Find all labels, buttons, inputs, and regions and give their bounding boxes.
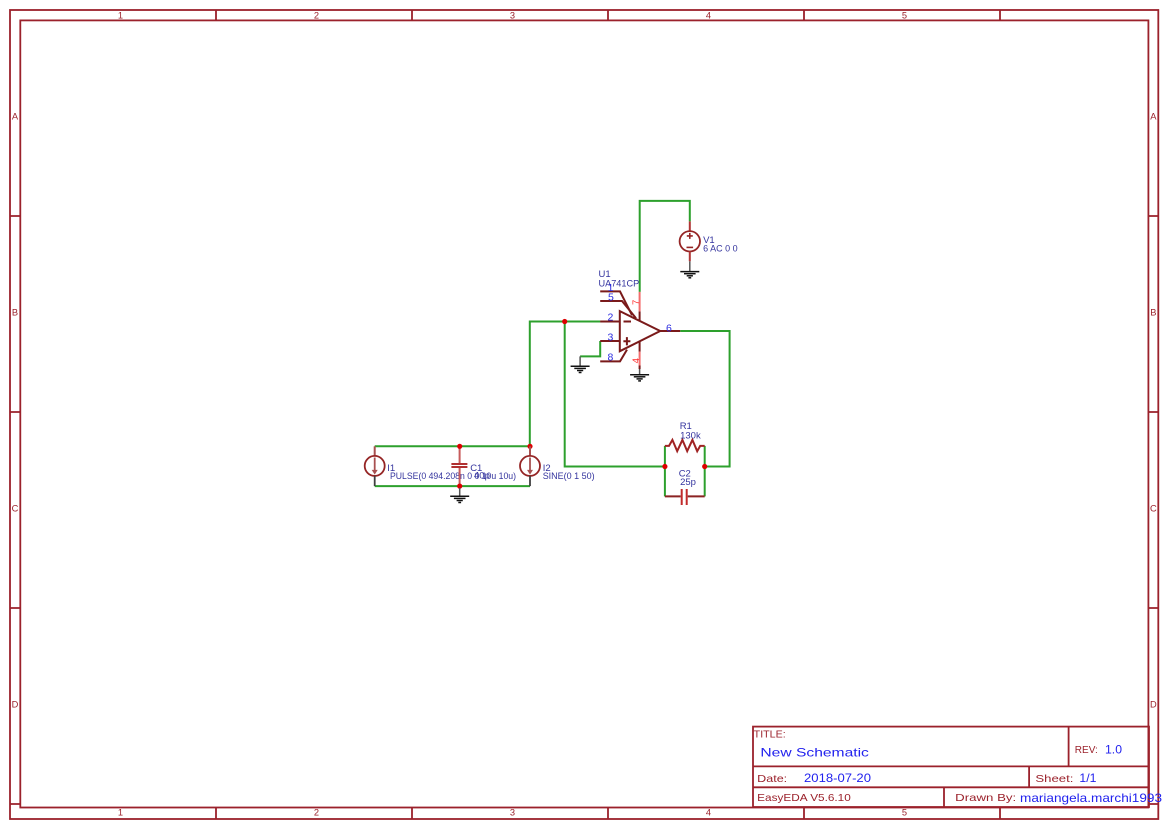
svg-text:A: A [12, 112, 19, 122]
svg-text:New Schematic: New Schematic [760, 746, 869, 760]
voltage source V1 [680, 221, 700, 261]
svg-text:5: 5 [608, 292, 614, 304]
svg-text:D: D [12, 700, 19, 710]
current source I2 [520, 446, 540, 486]
svg-text:Date:: Date: [757, 773, 787, 785]
svg-text:3: 3 [510, 10, 515, 20]
svg-text:25p: 25p [680, 477, 696, 488]
wire output net: pin6 to feedback right node [680, 331, 729, 467]
svg-text:4: 4 [631, 358, 642, 363]
svg-text:D: D [1150, 700, 1157, 710]
pin 3 [600, 340, 620, 342]
V1 labels [703, 235, 738, 254]
pin 7 pink segment [639, 292, 641, 312]
ground at V1 [680, 261, 699, 278]
svg-text:6: 6 [666, 322, 672, 334]
current source I1 [365, 456, 385, 486]
svg-text:8: 8 [608, 352, 614, 364]
svg-text:mariangela.marchi1993: mariangela.marchi1993 [1020, 791, 1162, 805]
pin 4 end stub [639, 366, 641, 370]
svg-text:C: C [1150, 504, 1157, 514]
junction dot sources top right [527, 444, 532, 449]
op-amp U1 reference labels [599, 269, 640, 290]
svg-text:4: 4 [706, 808, 711, 818]
pin 8 [600, 350, 627, 362]
svg-text:1: 1 [118, 10, 123, 20]
wire inverting input net: junction to pin2, down to sources [530, 322, 601, 446]
junction dot inverting input [562, 319, 567, 324]
svg-text:1: 1 [118, 808, 123, 818]
svg-text:B: B [12, 308, 18, 318]
pin 7 [639, 311, 641, 320]
svg-text:2: 2 [314, 10, 319, 20]
svg-text:B: B [1150, 308, 1156, 318]
U1 pin numbers [608, 282, 615, 364]
capacitor C2 [665, 489, 705, 505]
junction dot feedback right node [702, 464, 707, 469]
pin 1 [600, 291, 632, 315]
svg-text:6 AC 0 0: 6 AC 0 0 [703, 244, 738, 255]
svg-text:2018-07-20: 2018-07-20 [804, 771, 871, 785]
svg-text:4: 4 [706, 10, 711, 20]
svg-text:REV:: REV: [1075, 744, 1098, 756]
wire feedback left: junction down to R1C2 left node [565, 322, 664, 467]
svg-text:3: 3 [608, 331, 614, 343]
I1 labels [387, 463, 516, 482]
op-amp U1 body [600, 291, 680, 361]
svg-text:Drawn By:: Drawn By: [955, 792, 1016, 804]
resistor R1 [665, 440, 705, 451]
junction dot sources bottom [457, 484, 462, 489]
ground at C1 bottom [450, 488, 469, 503]
svg-text:Sheet:: Sheet: [1035, 773, 1073, 785]
svg-text:1.0: 1.0 [1105, 743, 1122, 757]
svg-text:A: A [1150, 112, 1157, 122]
pin 6 [660, 330, 680, 332]
title block [753, 727, 1149, 807]
junction dot feedback left node [662, 464, 667, 469]
ground at pin3 net [571, 356, 590, 372]
svg-text:7: 7 [631, 300, 642, 305]
svg-text:PULSE(0 494.208n 0 0 10u 10u): PULSE(0 494.208n 0 0 10u 10u) [390, 471, 516, 482]
wire R1C2 right vertical [704, 446, 706, 497]
R1 labels [680, 421, 701, 442]
svg-text:SINE(0 1 50): SINE(0 1 50) [543, 471, 595, 482]
svg-text:TITLE:: TITLE: [754, 728, 786, 740]
wire sources top [375, 445, 530, 447]
I2 labels [543, 463, 595, 482]
minus marker [624, 321, 632, 323]
svg-text:2: 2 [314, 808, 319, 818]
svg-text:40p: 40p [474, 471, 490, 482]
pin 2 [600, 321, 620, 323]
svg-text:5: 5 [902, 808, 907, 818]
svg-text:1/1: 1/1 [1079, 771, 1096, 785]
plus marker [623, 337, 630, 345]
wire pin3 to ground [580, 341, 600, 356]
svg-text:C: C [12, 504, 19, 514]
wire I1 top stub [374, 446, 376, 456]
wire R1C2 left vertical [664, 446, 666, 497]
wire V+ net: pin7 to V1 top [640, 201, 690, 292]
pin 4 [639, 342, 641, 352]
svg-text:EasyEDA V5.6.10: EasyEDA V5.6.10 [757, 792, 851, 804]
pin 5 [600, 301, 636, 318]
svg-text:5: 5 [902, 10, 907, 20]
C1 labels [470, 463, 490, 482]
svg-text:130k: 130k [680, 431, 701, 442]
ground at op-amp pin 4 [630, 369, 649, 381]
svg-text:3: 3 [510, 808, 515, 818]
C2 labels [679, 469, 696, 488]
wire sources bottom [375, 485, 530, 487]
svg-text:UA741CP: UA741CP [599, 279, 640, 290]
pin 4 pink segment [639, 352, 641, 366]
svg-text:2: 2 [608, 311, 614, 323]
capacitor C1 [451, 448, 467, 484]
junction dot sources top left [457, 444, 462, 449]
